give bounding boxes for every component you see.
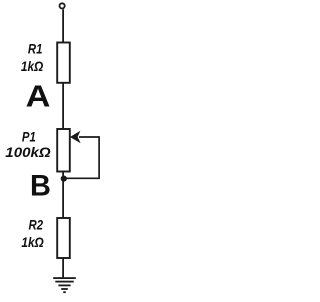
svg-text:B: B — [30, 169, 51, 202]
svg-text:R2: R2 — [29, 218, 44, 233]
svg-text:1kΩ: 1kΩ — [21, 59, 44, 74]
svg-text:100kΩ: 100kΩ — [5, 145, 51, 160]
svg-text:A: A — [26, 80, 51, 114]
svg-text:R1: R1 — [28, 42, 43, 57]
svg-text:P1: P1 — [22, 130, 36, 145]
svg-text:1kΩ: 1kΩ — [21, 235, 44, 250]
